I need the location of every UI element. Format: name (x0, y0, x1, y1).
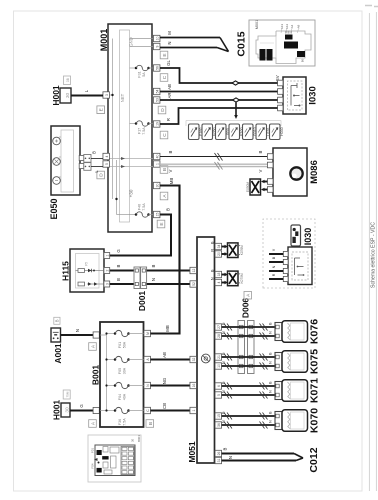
wire B H115 to D001 (110, 264, 134, 270)
svg-text:V: V (272, 248, 276, 251)
fuse feed reference symbol F160 (189, 124, 204, 140)
svg-text:75M: 75M (66, 391, 70, 397)
svg-text:5: 5 (105, 163, 109, 165)
svg-text:K070: K070 (309, 408, 321, 433)
arrow stub wires into pair symbol 2 (211, 269, 229, 284)
I030 inset label (303, 228, 313, 246)
C015 pin block 5 (297, 51, 305, 57)
svg-text:19: 19 (155, 122, 159, 126)
fuse F36 7.5A in B001 (114, 407, 144, 425)
fuse F17 7.5A in M001 (130, 121, 154, 135)
svg-text:N: N (269, 361, 273, 364)
svg-text:1: 1 (192, 409, 196, 411)
svg-text:36: 36 (217, 423, 221, 427)
svg-text:NET: NET (120, 93, 125, 102)
M051 right pin 10 (215, 363, 222, 369)
svg-text:30: 30 (155, 184, 159, 188)
wire N to connector C012 (222, 456, 297, 461)
svg-text:B: B (272, 256, 276, 259)
svg-text:F36: F36 (118, 419, 122, 425)
wire pair E050 to M001 (91, 151, 103, 173)
M001 pin 10 (153, 35, 160, 41)
svg-text:26: 26 (217, 452, 221, 456)
node GND label (129, 37, 134, 46)
svg-text:E050M: E050M (246, 182, 250, 192)
H001 top label (51, 85, 61, 106)
svg-text:M001: M001 (255, 20, 259, 30)
svg-text:R: R (211, 249, 215, 252)
svg-text:6: 6 (217, 385, 221, 387)
switch H115 box (70, 249, 104, 292)
fuse box layout inset detail (94, 445, 135, 476)
warning lamp 3 in E050 (53, 177, 61, 185)
H001 top reference box (64, 76, 71, 85)
svg-text:H115: H115 (61, 261, 71, 281)
fuse F31 5A in M001 (130, 65, 154, 77)
I030 inset pin stub N (269, 265, 288, 273)
connector code D left (97, 171, 105, 179)
M086 pin 3 (267, 179, 273, 185)
svg-text:M086: M086 (309, 160, 320, 184)
hydraulic pump M086 box (273, 148, 307, 196)
I030 inset pin stub V (269, 248, 288, 256)
B001 pin A (144, 356, 151, 362)
M051 right pin 5 (215, 392, 222, 398)
connector code E H001 (97, 106, 105, 114)
connector D001 (134, 267, 147, 289)
svg-text:3: 3 (105, 283, 109, 285)
svg-text:16: 16 (192, 384, 196, 388)
svg-text:B: B (269, 381, 273, 384)
wire M to CAN line (160, 31, 220, 38)
D006 label (241, 298, 251, 319)
wire G H115 to M001 (110, 208, 171, 256)
M051 label (187, 441, 197, 463)
svg-text:B: B (258, 150, 263, 153)
M001 pin 1 (153, 161, 160, 167)
svg-text:GL: GL (166, 60, 171, 66)
svg-text:B: B (92, 151, 97, 154)
svg-text:31: 31 (217, 459, 221, 463)
M051 right pin 28 (215, 333, 222, 339)
svg-text:5A: 5A (142, 72, 146, 77)
svg-text:53: 53 (155, 98, 159, 102)
svg-text:18: 18 (217, 273, 221, 277)
fuse box B001 (100, 322, 144, 427)
wire N D001 to M051 (147, 278, 190, 284)
svg-text:MB: MB (169, 178, 174, 185)
E050 inner rectangle (61, 130, 74, 192)
fuse feed reference symbol G010 (243, 124, 258, 140)
wheel speed sensor K076 connector (275, 323, 282, 341)
svg-text:B: B (116, 278, 121, 281)
svg-text:C: C (162, 75, 168, 79)
connector code C2 (160, 131, 168, 139)
M001 internal bus wire (109, 39, 130, 215)
C015 label (236, 31, 248, 56)
inline connector on E050 wires (84, 155, 91, 171)
node NET label (120, 93, 125, 102)
C015 pin block 1 (260, 49, 266, 61)
svg-text:10: 10 (217, 364, 221, 368)
wire pair M051 to K075 (222, 352, 276, 366)
svg-text:C015: C015 (236, 31, 248, 56)
connector code E2 (157, 220, 165, 228)
svg-text:V: V (258, 169, 263, 172)
svg-text:B001: B001 (137, 435, 141, 442)
M051 right pin 20 (215, 251, 222, 257)
battery A001 box (51, 328, 61, 342)
B001 pin C (144, 407, 151, 413)
svg-text:30: 30 (65, 407, 71, 413)
svg-text:A4: A4 (290, 24, 294, 28)
svg-text:R: R (272, 273, 276, 276)
fuse F04 40A in B001 (114, 382, 144, 400)
M001 label (99, 29, 109, 52)
M001 pin 56 (153, 65, 160, 71)
svg-text:K076M: K076M (240, 245, 244, 255)
M001 inner rectangle (120, 30, 130, 222)
connector code B left (97, 106, 105, 114)
svg-text:A8: A8 (297, 24, 301, 28)
wire R M001 pin19 to relay I030 (160, 108, 283, 124)
wire B to connector C012 (222, 447, 295, 453)
wheel speed sensor K075 connector (275, 353, 282, 371)
svg-text:20: 20 (217, 252, 221, 256)
wire CB B001 to M051 (151, 403, 191, 411)
connector C015 face view inset box (249, 20, 315, 66)
ABS ESP control unit M051 (197, 237, 215, 463)
svg-text:N: N (151, 278, 156, 281)
svg-text:B: B (148, 422, 154, 425)
svg-text:F5: F5 (85, 262, 89, 266)
svg-text:40: 40 (155, 155, 159, 159)
svg-text:F04: F04 (118, 394, 122, 400)
feed branch arrow to fuse references (234, 103, 238, 120)
wire pair M051 to K071 (222, 381, 276, 395)
svg-text:F04: F04 (91, 463, 95, 469)
svg-text:+30: +30 (129, 189, 134, 197)
C015 pin block 4 (284, 42, 298, 49)
relay I030 location inset dashed box (263, 219, 315, 288)
svg-text:A: A (246, 293, 251, 297)
control unit M001 box (108, 24, 152, 232)
svg-text:C012: C012 (308, 447, 320, 472)
K076 label (309, 319, 321, 344)
I030 pin 1 (278, 80, 283, 86)
fuse reference row bracket (186, 121, 281, 127)
wire NG B001 to M051 (151, 377, 191, 385)
svg-text:M: M (167, 31, 172, 35)
wheel speed sensor K070 connector (275, 412, 282, 430)
svg-text:54: 54 (155, 90, 159, 94)
svg-text:B: B (211, 269, 215, 272)
M051 right pin 18 (215, 271, 222, 277)
M001 pin 9 (153, 43, 160, 49)
I030 socket detail symbol (291, 225, 301, 246)
connector code D (158, 106, 166, 114)
H115 internal circuit (76, 254, 105, 289)
wire pair M051 to K070 (222, 411, 276, 425)
fuse F05 30A in B001 (114, 356, 144, 374)
svg-text:N: N (167, 41, 172, 44)
wheel speed sensor K070 body (282, 410, 308, 432)
M001 pin 15 (153, 211, 160, 217)
C012 label (308, 447, 320, 472)
C015 pin block 2 (267, 49, 273, 61)
svg-text:R: R (166, 118, 171, 121)
wheel speed sensor K075 body (282, 351, 308, 373)
svg-text:7.5A: 7.5A (142, 127, 146, 135)
svg-text:1: 1 (105, 254, 109, 256)
pump motor symbol (290, 167, 302, 179)
svg-text:K076: K076 (309, 319, 321, 344)
C015 inset M001 label (255, 20, 259, 30)
svg-text:N: N (269, 420, 273, 423)
A001 reference code box (54, 317, 60, 324)
svg-text:50A: 50A (123, 341, 127, 348)
svg-text:F01: F01 (91, 448, 95, 454)
fuse F46 7.5A in M001 (130, 203, 154, 218)
svg-text:28: 28 (217, 334, 221, 338)
svg-text:E: E (162, 53, 168, 56)
svg-text:D: D (99, 173, 105, 177)
svg-text:40A: 40A (123, 393, 127, 400)
svg-text:30: 30 (65, 93, 71, 99)
M051 left pin 16 (190, 382, 197, 388)
twist marks K070 (224, 413, 268, 429)
svg-text:5: 5 (217, 394, 221, 396)
M051 right pin 15 (215, 413, 222, 419)
svg-text:Schema elettrico ESP - VDC: Schema elettrico ESP - VDC (371, 222, 377, 288)
svg-text:B: B (269, 411, 273, 414)
M001 pin 53 (153, 97, 160, 103)
H115 pin 3 (104, 281, 110, 287)
M051 right pin 36 (215, 422, 222, 428)
I030 relay body in inset (288, 247, 312, 285)
M001 pin 40 (153, 153, 160, 159)
svg-text:L: L (84, 89, 89, 92)
M051 right pin 6 (215, 383, 222, 389)
H001 bottom reference box (63, 390, 70, 399)
connector D006 (238, 321, 254, 374)
svg-text:4: 4 (217, 281, 221, 283)
svg-text:56: 56 (155, 66, 159, 70)
svg-text:I030: I030 (303, 228, 313, 246)
M086 pin 4 (267, 187, 273, 193)
svg-text:N: N (211, 277, 215, 280)
wire L H001 to M001 (71, 89, 103, 95)
svg-text:N: N (228, 456, 233, 459)
svg-text:B: B (151, 264, 156, 267)
connector code A2 at B001 (89, 420, 97, 428)
svg-text:AB: AB (162, 352, 167, 358)
svg-text:B: B (116, 264, 121, 267)
svg-text:21: 21 (217, 355, 221, 359)
K071 label (309, 378, 321, 403)
wire B D001 to M051 (147, 264, 190, 270)
svg-text:CB: CB (162, 403, 167, 409)
C015 pin labels (280, 24, 305, 63)
svg-text:K075: K075 (309, 349, 321, 374)
svg-text:H030: H030 (280, 127, 284, 136)
svg-text:E050: E050 (49, 198, 59, 219)
A001 wire pin at B001 (93, 332, 99, 338)
H115 pin 1 (104, 253, 110, 259)
M051 left pin 52 (190, 281, 197, 287)
cropped header marks top-right (365, 6, 378, 7)
svg-text:30A: 30A (123, 367, 127, 374)
pennant C012 (294, 454, 303, 461)
M051 left pin 12 (190, 267, 197, 273)
warning lamp 1 in E050 (53, 137, 61, 145)
svg-text:B: B (223, 447, 228, 450)
svg-text:I030: I030 (308, 86, 319, 105)
A001 label (53, 343, 63, 364)
I030 internal contacts (288, 81, 303, 110)
device H001 bottom box (61, 403, 71, 417)
connector code A at B001 (89, 343, 97, 351)
C015 connector outline (256, 31, 311, 64)
wire B2 H115 to D001 (110, 278, 134, 284)
svg-text:K071: K071 (309, 378, 321, 403)
svg-text:H001: H001 (51, 85, 61, 106)
M051 left pin 1 (190, 407, 197, 413)
svg-text:M001: M001 (99, 29, 109, 52)
twisted pair symbol 2 at M051 (228, 271, 244, 286)
svg-text:C: C (162, 133, 168, 137)
svg-text:2: 2 (105, 269, 109, 271)
svg-text:F01: F01 (118, 342, 122, 348)
I030 pin 2 (278, 89, 283, 95)
warning lamp 2 in E050 (53, 157, 61, 165)
svg-text:NG: NG (162, 377, 167, 384)
wheel speed sensor K071 connector (275, 382, 282, 400)
wire G H001 to B001 (70, 404, 93, 411)
svg-text:E: E (99, 108, 105, 111)
svg-text:M051: M051 (187, 441, 197, 463)
M051 right pin 26 (215, 450, 222, 456)
B001 internal bus (100, 332, 115, 411)
wire pair M051 to K076 (222, 322, 276, 336)
fuse feed reference symbol E050 (202, 124, 217, 140)
svg-text:MB: MB (165, 325, 170, 332)
wire AR M001 to relay I030 with feed node (160, 93, 283, 100)
H001 bottom label (52, 400, 62, 421)
C015 pin block 3 with hatch (285, 31, 293, 40)
M086 pin 1 (267, 154, 273, 160)
svg-text:D001: D001 (137, 291, 147, 312)
M086 label (309, 160, 320, 184)
splice diamond on wire GL (232, 81, 239, 85)
fuse box inset labels (91, 435, 142, 469)
twist marks K071 (224, 383, 268, 399)
K075 label (309, 349, 321, 374)
svg-text:15: 15 (155, 213, 159, 217)
I030 inset pin stub R (269, 273, 288, 281)
svg-text:A001: A001 (53, 343, 63, 364)
title block separator lines (369, 12, 376, 491)
svg-text:N: N (75, 329, 80, 332)
wire AB M001 to relay I030 (160, 84, 283, 91)
M051 right pin 27 (215, 324, 222, 330)
svg-text:B: B (211, 241, 215, 244)
connector code B at B001 right (146, 420, 154, 428)
M051 pump symbol (201, 354, 210, 363)
svg-text:G: G (116, 249, 121, 253)
M051 right pin 34 (215, 243, 222, 249)
svg-text:B: B (269, 352, 273, 355)
M086 pin 2 (267, 162, 273, 168)
connector code E (160, 51, 168, 59)
CAN pennant C015 (217, 38, 229, 52)
wire AB B001 to M051 (151, 352, 191, 359)
D001 label (137, 291, 147, 312)
M051 right pin 21 (215, 354, 222, 360)
svg-text:F46: F46 (138, 204, 142, 210)
fuse feed reference symbol L020 (256, 124, 271, 140)
I030 inset pin stub B (269, 256, 288, 264)
M001 pin 30 (153, 182, 160, 188)
wire B M001 to pump M086 (160, 150, 268, 156)
svg-text:7.5A: 7.5A (142, 203, 146, 211)
B001 pin N (144, 382, 151, 388)
fuse feed reference symbol I030 (216, 124, 231, 140)
svg-text:08: 08 (66, 78, 70, 82)
M051 right pin 4 (215, 279, 222, 285)
M051 left pin 32 (190, 356, 197, 362)
wheel speed sensor K071 body (282, 380, 308, 402)
twist marks K075 (224, 354, 268, 370)
svg-text:D: D (160, 108, 166, 112)
svg-text:K075M: K075M (240, 273, 244, 283)
M001 internal feed wires to pins (130, 39, 154, 47)
svg-text:L: L (94, 170, 99, 173)
wire stubs M086 to twisted pair symbol (261, 180, 268, 191)
svg-text:B001: B001 (91, 365, 101, 386)
fuse box layout inset outer box (88, 435, 141, 482)
M001 pin 5 left (103, 161, 110, 167)
H001 wire pin at B001 (93, 407, 99, 413)
svg-text:N: N (269, 331, 273, 334)
wire N A001 to B001 (61, 329, 94, 335)
junction dots on M001 bus (111, 94, 117, 200)
svg-text:AB: AB (167, 84, 172, 90)
M051 right pin 31 (215, 457, 222, 463)
svg-text:AR: AR (167, 93, 172, 99)
svg-text:F31: F31 (138, 71, 142, 77)
svg-text:H001: H001 (52, 400, 62, 421)
svg-text:V: V (168, 169, 173, 172)
svg-text:27: 27 (217, 325, 221, 329)
svg-text:1: 1 (155, 163, 159, 165)
svg-text:34: 34 (217, 245, 221, 249)
K070 label (309, 408, 321, 433)
twisted pair symbol at M086 (246, 179, 261, 195)
twist marks K076 (224, 324, 268, 340)
svg-text:12: 12 (192, 269, 196, 273)
I030 label (308, 86, 319, 105)
instrument node E050 box (51, 126, 80, 195)
wheel speed sensor K076 body (282, 321, 308, 343)
splice diamond on wire AR (233, 98, 240, 102)
connector code B (160, 166, 168, 174)
B001 label (91, 365, 101, 386)
twisted pair symbol 1 at M051 (228, 243, 244, 258)
svg-text:B6: B6 (301, 58, 305, 62)
svg-text:G: G (79, 404, 84, 408)
svg-text:N: N (272, 265, 276, 268)
